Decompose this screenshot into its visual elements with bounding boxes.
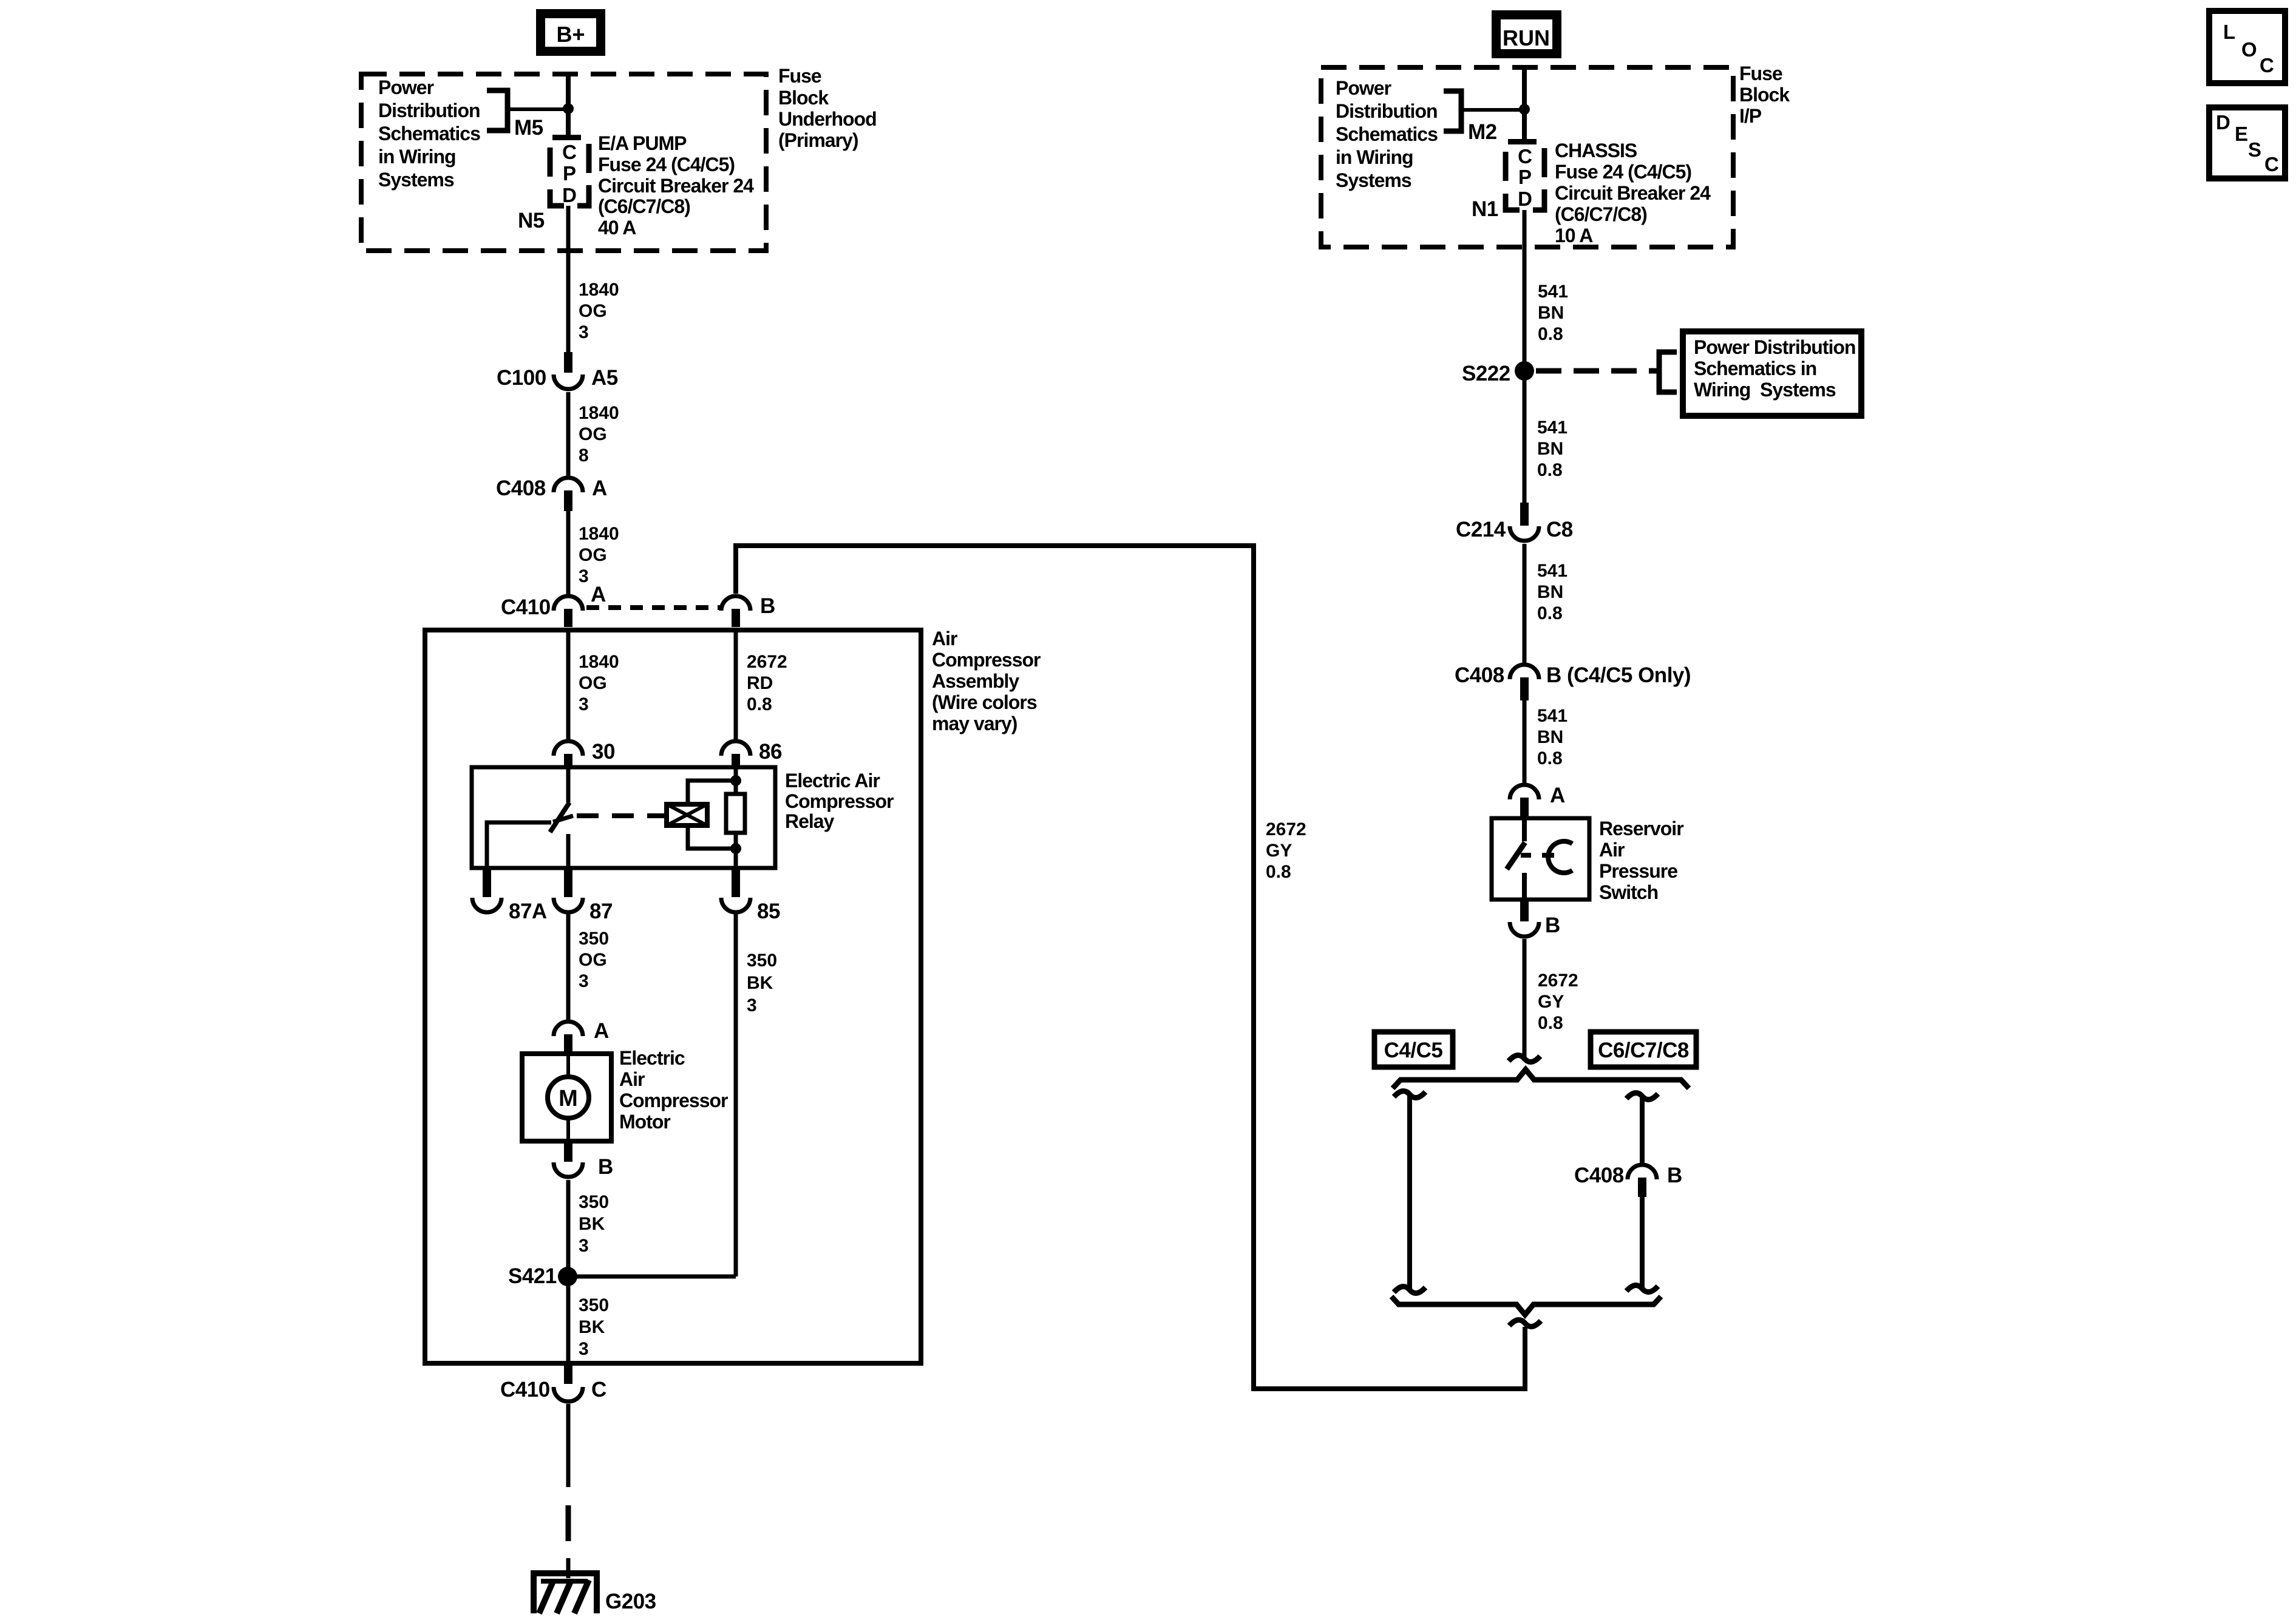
svg-text:C4/C5: C4/C5 [1384, 1039, 1443, 1062]
label Fuse Block Underhood (Primary) [778, 65, 877, 151]
svg-text:350: 350 [579, 1192, 609, 1212]
svg-text:BN: BN [1537, 439, 1563, 459]
relay coil junction dot top [730, 775, 741, 786]
splice S421 [508, 1264, 577, 1288]
svg-text:M: M [559, 1086, 578, 1111]
wire bracket to M2 node [1461, 108, 1524, 112]
label Electric Air Compressor Motor [619, 1047, 728, 1133]
svg-text:Fuse: Fuse [778, 65, 821, 87]
svg-text:2672: 2672 [1538, 971, 1578, 991]
wire S421 joining segment from pin 85 [568, 1275, 736, 1279]
svg-text:CHASSIS: CHASSIS [1555, 140, 1637, 161]
wire fuse output down to S222 [1523, 210, 1527, 371]
wire 2672 GY loop from C410 B up across and down to options joint [736, 546, 1525, 1389]
svg-text:Compressor: Compressor [932, 649, 1041, 671]
svg-text:BK: BK [747, 973, 773, 993]
svg-text:OG: OG [579, 301, 607, 321]
air compressor assembly box [425, 630, 921, 1363]
svg-text:OG: OG [579, 545, 607, 565]
svg-text:C: C [562, 141, 577, 163]
relay pin 87 [554, 868, 613, 923]
wire label 541 BN 0.8 [1537, 418, 1567, 480]
wire S421 down to C410 C [566, 1276, 571, 1366]
svg-text:O: O [2241, 38, 2257, 61]
svg-text:C: C [2260, 54, 2274, 76]
wire C410 A into relay pin 30 [566, 632, 571, 739]
svg-text:C408: C408 [1455, 663, 1504, 687]
svg-text:B: B [1545, 914, 1560, 937]
reference bracket to Power Distribution Schematics (right) [1444, 91, 1461, 131]
node M5 junction dot [563, 103, 574, 114]
svg-text:Schematics in: Schematics in [1694, 358, 1816, 379]
fuse block underhood dashed box [361, 74, 766, 251]
option label box C4/C5 [1374, 1032, 1453, 1067]
wire C408 to pressure switch A [1523, 700, 1527, 783]
pressure switch connector pin A [1510, 784, 1565, 819]
connector C408 pin B (C4/C5 Only) [1455, 663, 1691, 700]
svg-text:3: 3 [579, 566, 589, 586]
connector C410 pin B [721, 594, 775, 627]
svg-text:350: 350 [579, 929, 609, 949]
label Fuse Block I/P [1739, 63, 1790, 127]
wire C408 to C410 [566, 511, 571, 594]
svg-text:(Wire colors: (Wire colors [932, 691, 1037, 713]
bottom options brace [1391, 1297, 1661, 1315]
relay coil loop wires [688, 781, 736, 849]
svg-text:N1: N1 [1472, 197, 1498, 221]
wire label 350 BK 3 [579, 1295, 609, 1359]
fuse block I/P dashed box [1321, 67, 1733, 247]
svg-text:RUN: RUN [1503, 25, 1550, 50]
svg-text:D: D [2216, 111, 2230, 134]
svg-text:Fuse 24 (C4/C5): Fuse 24 (C4/C5) [598, 154, 735, 175]
svg-text:(C6/C7/C8): (C6/C7/C8) [598, 195, 690, 217]
svg-text:B: B [1667, 1164, 1682, 1187]
relay switch actuator tick [553, 816, 573, 822]
svg-text:1840: 1840 [579, 652, 619, 672]
dashed wire C410 A to B [586, 605, 720, 610]
svg-text:RD: RD [747, 673, 773, 693]
wire label 2672 GY 0.8 [1266, 819, 1306, 882]
wire C6/C7/C8 branch lower [1640, 1197, 1645, 1289]
option label box C6/C7/C8 [1591, 1032, 1696, 1067]
wire S222 to C214 [1523, 371, 1527, 504]
svg-text:A: A [592, 476, 607, 500]
relay coil junction dot bottom [730, 843, 741, 854]
svg-text:S222: S222 [1462, 362, 1510, 385]
svg-text:M5: M5 [514, 116, 543, 140]
relay U1 electric air compressor relay box [472, 767, 775, 868]
svg-text:10 A: 10 A [1555, 225, 1593, 246]
relay switch common stub (pin 30) [566, 767, 571, 802]
wire label 350 BK 3 [579, 1192, 609, 1256]
svg-text:C: C [2264, 153, 2279, 175]
wire break squiggle bottom of C6/C7/C8 branch [1626, 1285, 1658, 1292]
svg-text:C8: C8 [1546, 518, 1573, 541]
svg-text:may vary): may vary) [932, 713, 1017, 734]
svg-text:D: D [562, 184, 577, 206]
svg-text:2672: 2672 [1266, 819, 1306, 839]
top options brace [1393, 1070, 1689, 1088]
svg-text:541: 541 [1537, 706, 1567, 726]
svg-text:Circuit Breaker 24: Circuit Breaker 24 [598, 175, 754, 197]
svg-text:BK: BK [579, 1317, 605, 1337]
svg-text:87: 87 [589, 900, 613, 923]
wire break squiggle bottom of C4/C5 branch [1394, 1286, 1425, 1293]
wire label 2672 GY 0.8 [1538, 971, 1578, 1033]
svg-text:B: B [760, 594, 775, 618]
svg-text:87A: 87A [509, 900, 547, 923]
svg-text:Electric Air: Electric Air [785, 770, 880, 792]
svg-text:C: C [1518, 145, 1532, 168]
svg-text:C408: C408 [496, 476, 546, 500]
svg-text:541: 541 [1538, 282, 1568, 302]
svg-text:Switch: Switch [1599, 881, 1658, 903]
svg-text:C6/C7/C8: C6/C7/C8 [1598, 1039, 1689, 1062]
wire label 2672 RD 0.8 [747, 652, 787, 714]
svg-text:B+: B+ [556, 22, 585, 47]
svg-text:1840: 1840 [579, 524, 619, 544]
relay pin 86 [721, 740, 782, 768]
pressure switch connector pin B [1510, 900, 1560, 937]
wire label 1840 OG 8 [579, 403, 619, 466]
svg-text:Circuit Breaker 24: Circuit Breaker 24 [1555, 182, 1711, 204]
relay coil K1 (box with X) [667, 804, 707, 825]
svg-text:0.8: 0.8 [1537, 603, 1563, 623]
svg-text:BN: BN [1538, 303, 1564, 323]
wire B+ feed down into fuse block [566, 73, 571, 138]
label Reservoir Air Pressure Switch [1599, 818, 1683, 903]
svg-text:S421: S421 [508, 1264, 557, 1288]
svg-text:M2: M2 [1468, 120, 1497, 144]
wire label 541 BN 0.8 [1537, 706, 1567, 768]
ground G203 [531, 1573, 656, 1613]
svg-text:(Primary): (Primary) [778, 129, 858, 151]
svg-text:541: 541 [1537, 561, 1567, 581]
relay pin 30 [554, 740, 615, 768]
svg-text:Distribution: Distribution [1336, 100, 1438, 122]
dashed reference wire from S222 [1536, 368, 1657, 374]
svg-text:C214: C214 [1456, 518, 1506, 541]
svg-text:in Wiring: in Wiring [378, 146, 456, 168]
connector C408 pin B (options path) [1574, 1164, 1682, 1197]
reference bracket to Power Distribution Schematics (left) [487, 90, 508, 131]
label Electric Air Compressor Relay [785, 770, 894, 832]
svg-text:Assembly: Assembly [932, 670, 1019, 692]
svg-text:Compressor: Compressor [785, 790, 894, 812]
connector C410 pin A [501, 583, 606, 627]
label E/A PUMP Fuse 24 [598, 132, 754, 239]
svg-text:C410: C410 [501, 595, 551, 619]
motor symbol circle M [548, 1054, 589, 1141]
wire C214 to C408 [1523, 544, 1527, 663]
fuse/circuit-breaker CPD symbol (E/A PUMP fuse 24) [550, 135, 589, 206]
svg-text:BN: BN [1537, 582, 1563, 602]
svg-text:3: 3 [579, 1236, 589, 1256]
svg-text:0.8: 0.8 [1266, 862, 1291, 882]
svg-text:40 A: 40 A [598, 217, 636, 239]
relay pin 85 [721, 868, 780, 923]
svg-text:Schematics: Schematics [1336, 123, 1438, 145]
svg-text:BN: BN [1537, 727, 1563, 747]
svg-text:0.8: 0.8 [1538, 1013, 1563, 1033]
svg-text:C100: C100 [497, 366, 546, 390]
wire label 1840 OG 3 [579, 652, 619, 714]
svg-text:Wiring Systems: Wiring Systems [1694, 379, 1836, 401]
svg-text:Air: Air [1599, 839, 1625, 861]
wire C4/C5 option branch [1407, 1094, 1412, 1290]
wire C100 to C408 [566, 392, 571, 476]
svg-text:Power: Power [1336, 77, 1391, 99]
wire break squiggle top of C6/C7/C8 branch [1626, 1093, 1658, 1099]
wire break squiggle above top brace [1509, 1055, 1540, 1062]
reference box Power Distribution Schematics in Wiring Systems [1683, 331, 1861, 416]
svg-text:2672: 2672 [747, 652, 787, 672]
svg-text:0.8: 0.8 [747, 694, 772, 714]
wire label 1840 OG 3 [579, 524, 619, 586]
svg-text:N5: N5 [518, 209, 545, 232]
motor connector pin B [554, 1141, 613, 1179]
wire C410 C toward ground with break [566, 1404, 571, 1578]
wire resistor to pin 85 [734, 833, 738, 868]
svg-text:Systems: Systems [378, 169, 454, 191]
svg-text:S: S [2248, 138, 2261, 161]
relay pin 87A [472, 868, 547, 923]
connector C408 pin A [496, 476, 607, 511]
svg-text:in Wiring: in Wiring [1336, 146, 1413, 168]
svg-text:Block: Block [1739, 84, 1790, 106]
svg-text:Schematics: Schematics [378, 123, 480, 144]
svg-text:0.8: 0.8 [1537, 460, 1563, 480]
svg-text:Reservoir: Reservoir [1599, 818, 1683, 839]
svg-text:G203: G203 [605, 1590, 656, 1613]
svg-text:3: 3 [579, 1339, 589, 1359]
svg-text:3: 3 [579, 322, 589, 342]
svg-text:Fuse 24 (C4/C5): Fuse 24 (C4/C5) [1555, 161, 1691, 183]
wire label 350 BK 3 [747, 951, 777, 1015]
motor connector pin A [554, 1019, 609, 1055]
svg-text:Pressure: Pressure [1599, 860, 1677, 882]
svg-text:(C6/C7/C8): (C6/C7/C8) [1555, 203, 1647, 225]
wire 86 column through resistor [734, 767, 738, 794]
svg-text:Relay: Relay [785, 810, 835, 832]
svg-text:B (C4/C5 Only): B (C4/C5 Only) [1546, 663, 1691, 687]
svg-text:86: 86 [759, 740, 782, 764]
svg-text:8: 8 [579, 446, 589, 466]
svg-text:C408: C408 [1574, 1164, 1624, 1187]
svg-text:Electric: Electric [619, 1047, 685, 1069]
svg-text:0.8: 0.8 [1537, 748, 1563, 768]
power terminal B+ [536, 9, 605, 56]
svg-text:A: A [594, 1019, 609, 1043]
label Power Distribution Schematics in Wiring Systems (right) [1336, 77, 1438, 191]
wire pressure switch B down to options [1523, 939, 1527, 1059]
reference bracket at S222 [1659, 352, 1677, 392]
svg-text:C410: C410 [500, 1378, 550, 1402]
svg-text:A: A [591, 583, 606, 606]
power terminal RUN [1492, 10, 1561, 58]
svg-text:Motor: Motor [619, 1111, 670, 1133]
DESC legend box [2209, 107, 2285, 178]
svg-text:3: 3 [579, 694, 589, 714]
svg-text:Distribution: Distribution [378, 100, 480, 121]
svg-text:C: C [591, 1378, 606, 1402]
svg-text:OG: OG [579, 950, 607, 970]
svg-text:GY: GY [1538, 992, 1564, 1012]
svg-text:OG: OG [579, 673, 607, 693]
svg-text:BK: BK [579, 1214, 605, 1234]
svg-text:Systems: Systems [1336, 169, 1411, 191]
relay 87A branch wire [487, 822, 551, 868]
wire label 350 OG 3 [579, 929, 609, 991]
wire label 1840 OG 3 [579, 280, 619, 342]
svg-text:Fuse: Fuse [1739, 63, 1782, 84]
label CHASSIS Fuse 24 [1555, 140, 1711, 246]
svg-text:A5: A5 [591, 366, 618, 390]
connector C100 pin A5 [497, 352, 618, 390]
wire pin 85 down to splice S421 [734, 912, 738, 1276]
svg-text:E/A PUMP: E/A PUMP [598, 132, 687, 154]
svg-text:OG: OG [579, 424, 607, 444]
svg-text:Power Distribution: Power Distribution [1694, 336, 1855, 358]
svg-text:L: L [2223, 21, 2235, 43]
connector C214 pin C8 [1456, 503, 1573, 541]
svg-text:E: E [2235, 123, 2248, 145]
wire C6/C7/C8 branch upper [1640, 1096, 1645, 1163]
motor M1 electric air compressor motor box [522, 1054, 611, 1141]
svg-text:1840: 1840 [579, 403, 619, 423]
fuse/circuit-breaker CPD symbol (CHASSIS fuse 24) [1506, 139, 1544, 210]
wire bracket to M5 node [508, 107, 568, 111]
relay switch blade [550, 802, 569, 832]
label Power Distribution Schematics in Wiring Systems (left) [378, 76, 480, 191]
wire break squiggle below bottom brace [1509, 1320, 1541, 1326]
node M2 junction dot [1519, 104, 1530, 115]
svg-text:Underhood: Underhood [778, 108, 877, 130]
svg-text:0.8: 0.8 [1538, 324, 1563, 344]
relay switch lower stub (pin 87) [566, 834, 571, 868]
svg-text:Power: Power [378, 76, 434, 98]
svg-text:3: 3 [579, 971, 589, 991]
svg-text:3: 3 [747, 995, 757, 1015]
svg-text:541: 541 [1537, 418, 1567, 438]
wire label 541 BN 0.8 [1538, 282, 1568, 344]
wire label 541 BN 0.8 [1537, 561, 1567, 623]
svg-text:350: 350 [747, 951, 777, 971]
relay resistor R1 [726, 794, 745, 833]
label Air Compressor Assembly (Wire colors may vary) [932, 628, 1041, 734]
pressure switch internals [1507, 818, 1572, 900]
wire break squiggle top of C4/C5 branch [1394, 1091, 1425, 1097]
svg-text:I/P: I/P [1739, 105, 1762, 127]
wire C410 B into relay pin 86 [734, 632, 738, 739]
svg-text:Air: Air [932, 628, 957, 649]
svg-text:350: 350 [579, 1295, 609, 1315]
wire RUN feed down into fuse block [1522, 67, 1527, 141]
svg-text:P: P [563, 162, 576, 185]
wire pin 87 to motor [566, 912, 571, 1020]
svg-text:B: B [598, 1155, 613, 1179]
connector C410 pin C [500, 1366, 606, 1402]
splice S222 [1462, 361, 1534, 385]
svg-text:A: A [1550, 784, 1565, 807]
svg-text:85: 85 [757, 900, 780, 923]
svg-text:30: 30 [592, 740, 615, 764]
svg-text:Block: Block [778, 87, 829, 109]
svg-text:Air: Air [619, 1068, 645, 1090]
reservoir air pressure switch S1 box [1492, 818, 1589, 900]
relay actuator dashed link to coil [577, 813, 665, 818]
svg-text:D: D [1518, 188, 1532, 210]
wire motor B to S421 [566, 1180, 571, 1276]
svg-text:P: P [1518, 166, 1532, 188]
LOC legend box [2209, 11, 2285, 83]
svg-text:Compressor: Compressor [619, 1090, 728, 1111]
svg-text:GY: GY [1266, 841, 1292, 861]
wire fuse output down to C100 [566, 206, 571, 352]
svg-text:1840: 1840 [579, 280, 619, 300]
